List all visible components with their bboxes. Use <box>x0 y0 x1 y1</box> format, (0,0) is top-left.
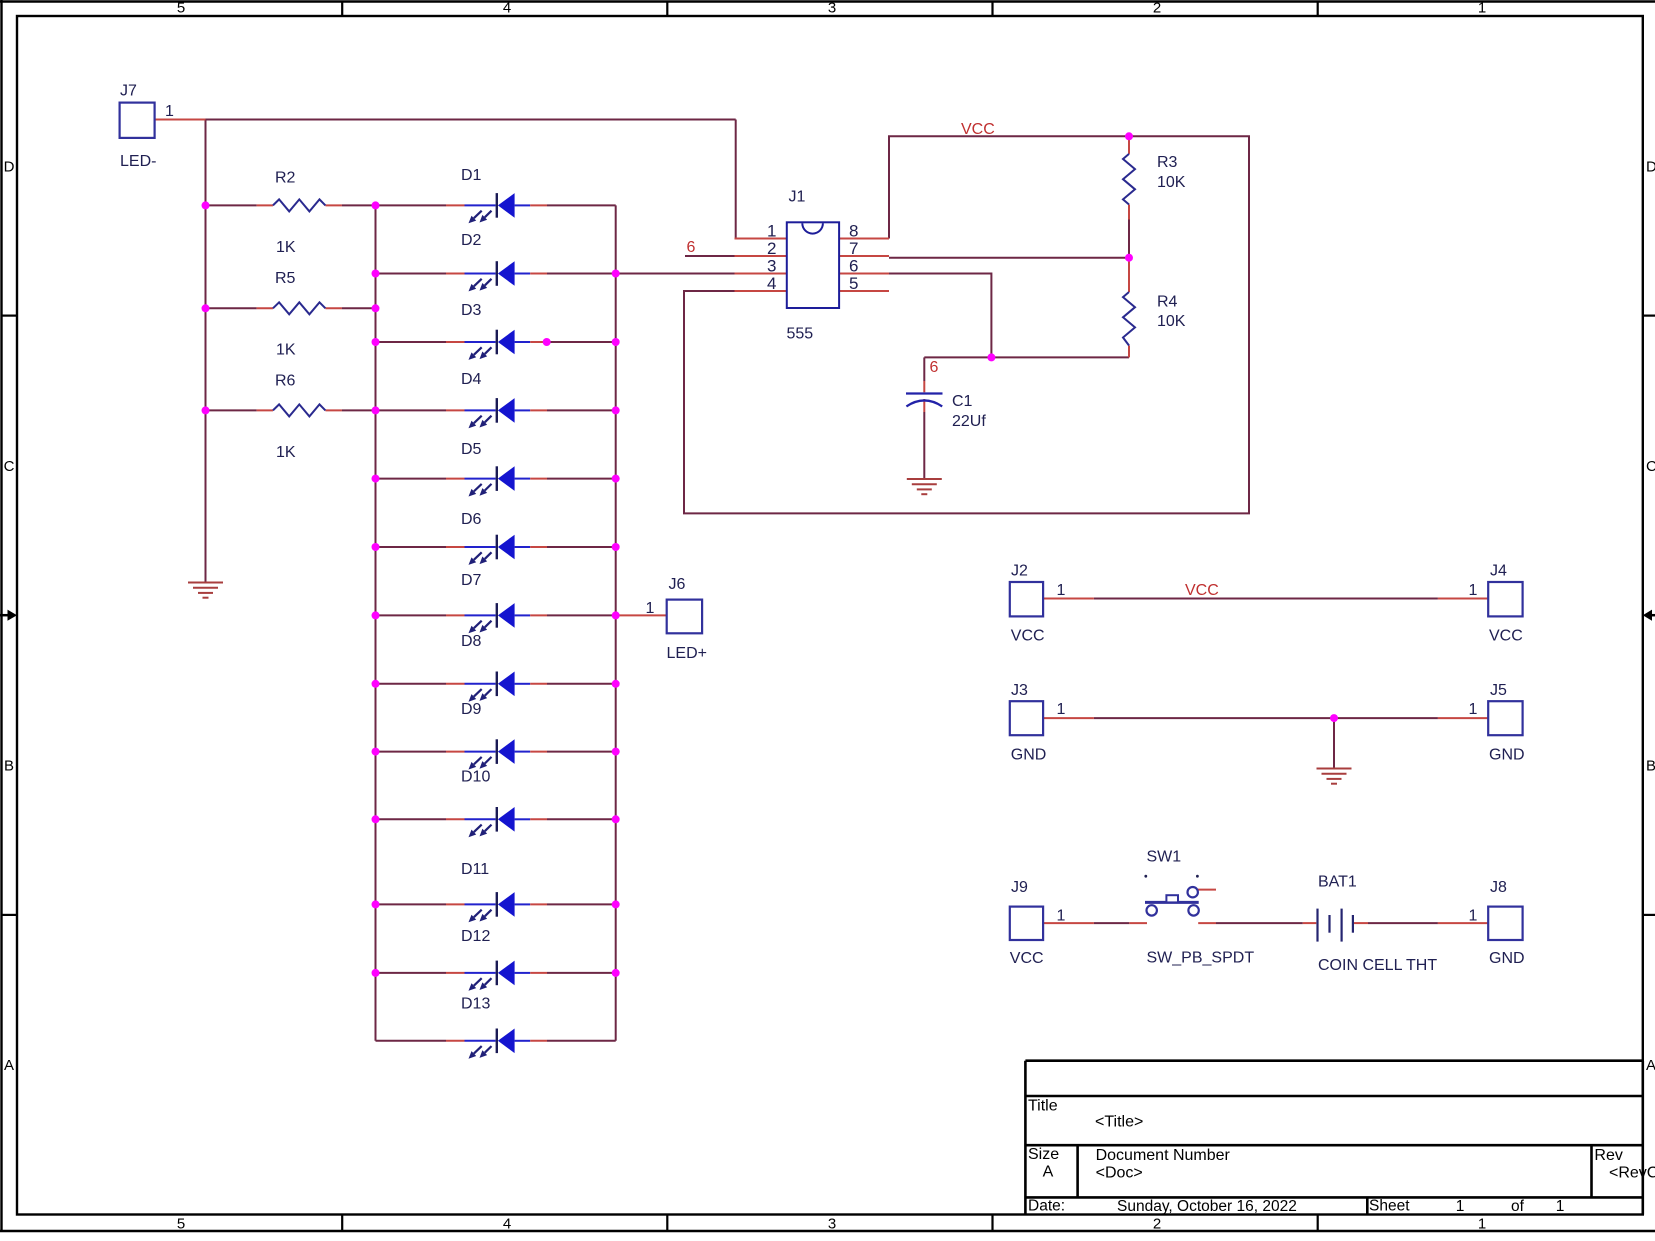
svg-text:A: A <box>4 1057 14 1074</box>
svg-text:555: 555 <box>787 326 814 343</box>
svg-text:Document Number: Document Number <box>1096 1147 1231 1164</box>
svg-text:SW_PB_SPDT: SW_PB_SPDT <box>1147 949 1255 966</box>
svg-text:D: D <box>1646 158 1655 175</box>
svg-text:D4: D4 <box>461 371 482 388</box>
svg-text:C: C <box>1646 458 1655 475</box>
svg-text:10K: 10K <box>1157 174 1186 191</box>
svg-text:D8: D8 <box>461 633 482 650</box>
svg-text:BAT1: BAT1 <box>1318 874 1357 891</box>
svg-text:1K: 1K <box>276 342 296 359</box>
svg-text:D3: D3 <box>461 302 482 319</box>
svg-text:4: 4 <box>503 1215 511 1232</box>
svg-text:6: 6 <box>930 359 939 376</box>
svg-text:D: D <box>4 158 15 175</box>
svg-text:6: 6 <box>687 239 696 256</box>
svg-text:7: 7 <box>849 239 858 258</box>
svg-text:8: 8 <box>849 221 858 240</box>
svg-text:GND: GND <box>1489 950 1525 967</box>
svg-text:22Uf: 22Uf <box>952 413 986 430</box>
svg-text:GND: GND <box>1489 747 1525 764</box>
svg-text:LED+: LED+ <box>667 645 707 662</box>
svg-text:<Title>: <Title> <box>1095 1113 1143 1130</box>
svg-text:J5: J5 <box>1490 682 1507 699</box>
svg-text:J1: J1 <box>789 189 806 206</box>
svg-text:1: 1 <box>1478 1215 1486 1232</box>
svg-text:J3: J3 <box>1011 682 1028 699</box>
svg-text:R6: R6 <box>275 373 296 390</box>
svg-text:4: 4 <box>767 274 776 293</box>
svg-text:D10: D10 <box>461 769 490 786</box>
svg-text:1: 1 <box>767 221 776 240</box>
svg-text:<Doc>: <Doc> <box>1096 1164 1143 1181</box>
svg-text:GND: GND <box>1011 747 1047 764</box>
svg-text:D12: D12 <box>461 928 490 945</box>
svg-text:2: 2 <box>1153 0 1161 17</box>
svg-text:6: 6 <box>849 256 858 275</box>
svg-text:R3: R3 <box>1157 154 1178 171</box>
svg-text:VCC: VCC <box>1011 627 1045 644</box>
svg-text:R5: R5 <box>275 270 296 287</box>
svg-text:VCC: VCC <box>961 121 995 138</box>
svg-text:1K: 1K <box>276 444 296 461</box>
svg-text:10K: 10K <box>1157 313 1186 330</box>
svg-text:1: 1 <box>1456 1198 1465 1215</box>
svg-text:C: C <box>4 458 15 475</box>
svg-text:Title: Title <box>1028 1098 1058 1115</box>
svg-text:Date:: Date: <box>1028 1198 1065 1215</box>
svg-text:B: B <box>1646 758 1655 775</box>
svg-text:3: 3 <box>767 256 776 275</box>
svg-text:J8: J8 <box>1490 879 1507 896</box>
svg-text:R2: R2 <box>275 169 296 186</box>
svg-text:5: 5 <box>177 0 185 17</box>
svg-text:J4: J4 <box>1490 563 1507 580</box>
svg-text:D9: D9 <box>461 701 482 718</box>
svg-text:D7: D7 <box>461 572 482 589</box>
svg-text:1: 1 <box>165 103 174 120</box>
svg-text:1: 1 <box>1057 701 1066 718</box>
svg-text:1K: 1K <box>276 239 296 256</box>
svg-text:SW1: SW1 <box>1147 849 1182 866</box>
svg-text:B: B <box>4 758 14 775</box>
svg-text:C1: C1 <box>952 393 973 410</box>
svg-text:D6: D6 <box>461 511 482 528</box>
svg-text:A: A <box>1043 1163 1054 1180</box>
svg-text:VCC: VCC <box>1489 627 1523 644</box>
svg-text:VCC: VCC <box>1010 950 1044 967</box>
svg-text:1: 1 <box>1469 582 1478 599</box>
svg-text:D13: D13 <box>461 996 490 1013</box>
svg-text:J6: J6 <box>669 576 686 593</box>
svg-text:1: 1 <box>646 600 655 617</box>
svg-text:D1: D1 <box>461 167 482 184</box>
svg-text:1: 1 <box>1478 0 1486 17</box>
svg-text:4: 4 <box>503 0 511 17</box>
svg-text:of: of <box>1511 1198 1525 1215</box>
svg-text:2: 2 <box>1153 1215 1161 1232</box>
svg-text:1: 1 <box>1469 907 1478 924</box>
svg-text:5: 5 <box>177 1215 185 1232</box>
svg-text:1: 1 <box>1469 701 1478 718</box>
svg-text:VCC: VCC <box>1185 582 1219 599</box>
svg-text:Rev: Rev <box>1594 1147 1622 1164</box>
svg-text:J9: J9 <box>1011 879 1028 896</box>
svg-text:2: 2 <box>767 239 776 258</box>
svg-text:Sunday, October 16, 2022: Sunday, October 16, 2022 <box>1117 1198 1297 1215</box>
svg-text:A: A <box>1646 1057 1655 1074</box>
svg-text:Size: Size <box>1028 1146 1059 1163</box>
svg-text:Sheet: Sheet <box>1369 1198 1410 1215</box>
svg-text:COIN CELL THT: COIN CELL THT <box>1318 957 1437 974</box>
svg-text:D2: D2 <box>461 232 482 249</box>
svg-text:LED-: LED- <box>120 153 156 170</box>
svg-text:<RevCode>: <RevCode> <box>1609 1164 1655 1181</box>
svg-text:1: 1 <box>1057 582 1066 599</box>
svg-text:J7: J7 <box>120 83 137 100</box>
svg-text:1: 1 <box>1057 907 1066 924</box>
svg-text:R4: R4 <box>1157 294 1178 311</box>
svg-text:3: 3 <box>828 1215 836 1232</box>
svg-text:3: 3 <box>828 0 836 17</box>
svg-text:J2: J2 <box>1011 563 1028 580</box>
svg-text:1: 1 <box>1556 1198 1565 1215</box>
svg-text:D11: D11 <box>461 861 489 878</box>
svg-text:5: 5 <box>849 274 858 293</box>
svg-text:D5: D5 <box>461 441 482 458</box>
